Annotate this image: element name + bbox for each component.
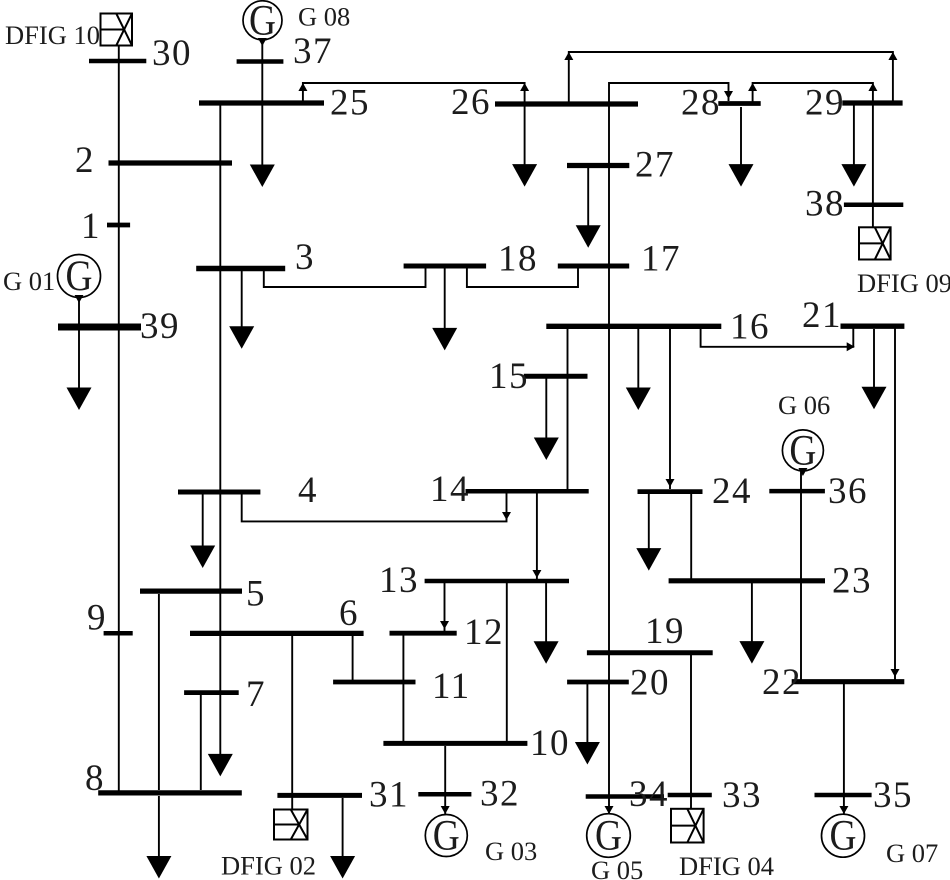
svg-text:18: 18	[498, 239, 538, 280]
svg-text:G 03: G 03	[485, 836, 537, 866]
generator G 07	[822, 813, 865, 860]
bus 35	[815, 793, 872, 798]
load arrow bus 39	[67, 330, 92, 410]
load arrow bus 16	[626, 328, 651, 410]
bus 3	[196, 266, 285, 271]
wire 29-38 / 38-DFIG09 vertical	[872, 103, 874, 227]
wire 15-16 / 14-15 vertical	[567, 326, 569, 491]
bus 14	[466, 489, 589, 494]
load arrow bus 18	[432, 268, 457, 350]
svg-text:11: 11	[432, 666, 471, 707]
bus 18	[404, 264, 487, 269]
bus 13	[425, 579, 569, 584]
small arrow 4-14 corner	[502, 512, 511, 520]
bus 39	[58, 324, 141, 331]
small arrow 28-29 right	[868, 83, 877, 91]
bus 21	[841, 324, 905, 329]
bus 38	[844, 203, 903, 208]
bus 1	[107, 223, 130, 228]
load arrow bus 21	[862, 329, 887, 409]
bus 23	[669, 578, 825, 583]
wire 5-8 vertical	[158, 594, 160, 790]
bus 9	[104, 631, 133, 636]
small arrow 26-28 end	[724, 91, 733, 99]
generator G 01	[58, 253, 101, 300]
DFIG symbol DFIG 10	[101, 14, 133, 46]
DFIG symbol DFIG 02	[274, 810, 308, 840]
bus 24	[638, 489, 703, 494]
wire 19-33 / 33-DFIG04 vertical	[690, 655, 692, 809]
small arrow 16-24 end	[666, 479, 675, 487]
bus 34	[586, 794, 664, 799]
svg-text:G: G	[595, 813, 622, 860]
bus 32	[418, 792, 471, 797]
svg-text:10: 10	[530, 723, 570, 764]
bus 4	[178, 490, 260, 495]
small arrow G07 link	[839, 806, 848, 814]
svg-text:G: G	[789, 427, 816, 474]
wire 16-21 link	[701, 326, 854, 347]
svg-text:14: 14	[430, 469, 470, 510]
wire 4-14 link	[242, 493, 507, 521]
load arrow bus 23	[739, 583, 764, 664]
svg-text:34: 34	[629, 774, 669, 815]
DFIG symbol DFIG 09	[859, 227, 891, 259]
svg-text:12: 12	[464, 612, 504, 653]
svg-text:26: 26	[451, 82, 491, 123]
small arrow 26-29 left	[564, 52, 573, 60]
svg-text:G: G	[433, 813, 460, 860]
bus 36	[769, 489, 825, 494]
bus 15	[524, 374, 588, 379]
bus 22	[792, 679, 905, 684]
small arrow 25-26 left	[298, 83, 307, 91]
svg-text:31: 31	[369, 775, 409, 816]
generator G 05	[587, 813, 631, 860]
svg-text:G: G	[249, 0, 276, 44]
svg-text:G: G	[66, 253, 93, 300]
wire 3-18 link	[264, 268, 426, 287]
bus 33	[668, 793, 712, 798]
load arrow bus 20	[575, 684, 600, 765]
svg-text:23: 23	[832, 561, 872, 602]
svg-text:DFIG 10: DFIG 10	[5, 20, 100, 50]
load arrow bus 24	[636, 494, 661, 571]
svg-text:16: 16	[730, 307, 770, 348]
svg-text:22: 22	[762, 662, 802, 703]
generator G 03	[425, 813, 467, 860]
load arrow bus 28	[729, 107, 754, 187]
wire 34-G05 stub	[608, 796, 610, 814]
wire 39-G01 stub	[78, 297, 80, 327]
svg-text:27: 27	[635, 145, 675, 186]
small arrow 16-21 end	[847, 342, 855, 351]
svg-text:36: 36	[828, 471, 868, 512]
svg-text:G 06: G 06	[778, 390, 830, 420]
svg-text:9: 9	[87, 598, 107, 639]
wire 26-28 link	[609, 83, 729, 104]
load arrow bus 31	[330, 798, 355, 879]
small arrow G06 link	[798, 468, 807, 476]
small arrow 26-29 right	[888, 52, 897, 60]
wire 7-8 vertical	[200, 695, 202, 790]
wire 23-24 vertical	[690, 492, 692, 579]
svg-text:21: 21	[802, 295, 842, 336]
svg-text:19: 19	[645, 611, 685, 652]
bus 5	[140, 588, 242, 593]
load arrow bus 7	[208, 695, 233, 776]
load arrow bus 29	[841, 105, 866, 187]
bus 8	[98, 790, 242, 795]
bus 27	[567, 163, 629, 168]
wire 11-12 / 10-11 vertical	[402, 635, 404, 742]
load arrow bus 13	[534, 583, 559, 664]
svg-text:G 07: G 07	[886, 838, 938, 868]
generator G 08	[243, 0, 282, 44]
small arrow 25-26 right	[520, 83, 529, 91]
svg-text:38: 38	[805, 184, 845, 225]
wire 26-27 / 17-27 / 16-17 / 16-19 / 19-20 / 20-34 vertical	[608, 104, 610, 796]
load arrow bus 27	[576, 168, 601, 248]
bus 19	[587, 650, 713, 655]
load arrow bus 25	[250, 105, 275, 187]
wire 25-26 link	[303, 83, 525, 104]
svg-text:29: 29	[805, 83, 845, 124]
wire 17-18 link	[467, 266, 578, 287]
load arrow bus 4	[190, 494, 215, 568]
wire 10-13 vertical	[506, 583, 508, 742]
svg-text:32: 32	[480, 774, 520, 815]
small arrow 13-14 end	[532, 570, 541, 578]
small arrow G08 link	[258, 38, 267, 46]
wire 37-G08 / 25-37 vertical	[261, 41, 263, 103]
wire 28-29 link	[753, 83, 873, 105]
wire 6-31 / 31-DFIG02 vertical	[291, 636, 293, 810]
wire 21-22 vertical	[894, 328, 896, 680]
bus 20	[567, 680, 629, 685]
svg-text:25: 25	[330, 83, 370, 124]
bus 16	[546, 324, 721, 329]
svg-text:1: 1	[81, 206, 101, 247]
load arrow bus 15	[534, 378, 559, 460]
load arrow bus 26	[512, 106, 537, 187]
small arrow G05 link	[605, 806, 614, 814]
wire 12-13 vertical	[444, 583, 446, 631]
DFIG symbol DFIG 04	[671, 809, 704, 843]
svg-text:DFIG 04: DFIG 04	[679, 851, 774, 880]
svg-text:DFIG 09: DFIG 09	[857, 268, 950, 298]
bus 37	[237, 59, 284, 64]
svg-text:13: 13	[379, 560, 419, 601]
svg-text:DFIG 02: DFIG 02	[221, 851, 316, 880]
svg-text:6: 6	[339, 593, 359, 634]
svg-text:4: 4	[298, 470, 318, 511]
svg-text:28: 28	[681, 83, 721, 124]
svg-text:30: 30	[152, 33, 192, 74]
bus 31	[277, 793, 362, 798]
wire 16-24 vertical	[669, 326, 671, 489]
wire 6-11 vertical	[352, 636, 354, 681]
svg-text:G 05: G 05	[591, 855, 643, 880]
wire 10-32 / 32-G03 vertical	[444, 746, 446, 814]
generator G 06	[782, 427, 823, 474]
svg-text:37: 37	[293, 31, 333, 72]
small arrow 28-29 left	[748, 83, 757, 91]
bus 29	[842, 100, 902, 105]
bus 2	[109, 160, 233, 165]
svg-text:8: 8	[85, 758, 105, 799]
small arrow 12-13 end	[440, 621, 449, 629]
bus 12	[390, 631, 457, 636]
svg-text:39: 39	[140, 306, 180, 347]
svg-text:G: G	[830, 813, 857, 860]
bus 6	[190, 631, 364, 636]
small arrow G03 link	[441, 806, 450, 814]
svg-text:G 01: G 01	[3, 266, 55, 296]
svg-text:G 08: G 08	[298, 2, 350, 32]
svg-text:35: 35	[873, 775, 913, 816]
svg-text:15: 15	[489, 356, 529, 397]
bus 11	[333, 680, 415, 685]
wire 22-35 / 35-G07 vertical	[843, 684, 845, 814]
bus 25	[199, 100, 324, 105]
svg-text:5: 5	[246, 574, 266, 615]
svg-text:3: 3	[295, 237, 315, 278]
bus 7	[184, 690, 239, 695]
wire 13-14 vertical	[536, 493, 538, 580]
wire 2-25 / 2-3 / 3-4 / 4-5 / 5-6 / 6-7 vertical	[219, 103, 221, 695]
small arrow 21-22 end	[891, 669, 900, 677]
svg-text:33: 33	[722, 775, 762, 816]
svg-text:17: 17	[641, 239, 681, 280]
wire G06-36 / 23-36 / 22-23 vertical	[800, 470, 802, 680]
svg-text:24: 24	[712, 471, 752, 512]
wire 26-29 link	[569, 52, 893, 103]
bus 17	[558, 264, 629, 269]
load arrow bus 8	[146, 796, 171, 879]
svg-text:7: 7	[246, 674, 266, 715]
load arrow bus 3	[229, 271, 254, 349]
svg-text:2: 2	[75, 140, 95, 181]
bus 28	[718, 101, 760, 106]
small arrow G01 link	[75, 295, 84, 303]
wire 2-30 / 30-DFIG10 vertical (buses 30,2,1,39,9 chain down to bus 8)	[118, 46, 120, 793]
bus 30	[89, 59, 146, 64]
svg-text:20: 20	[630, 663, 670, 704]
bus 26	[495, 101, 638, 106]
bus 10	[383, 741, 527, 746]
